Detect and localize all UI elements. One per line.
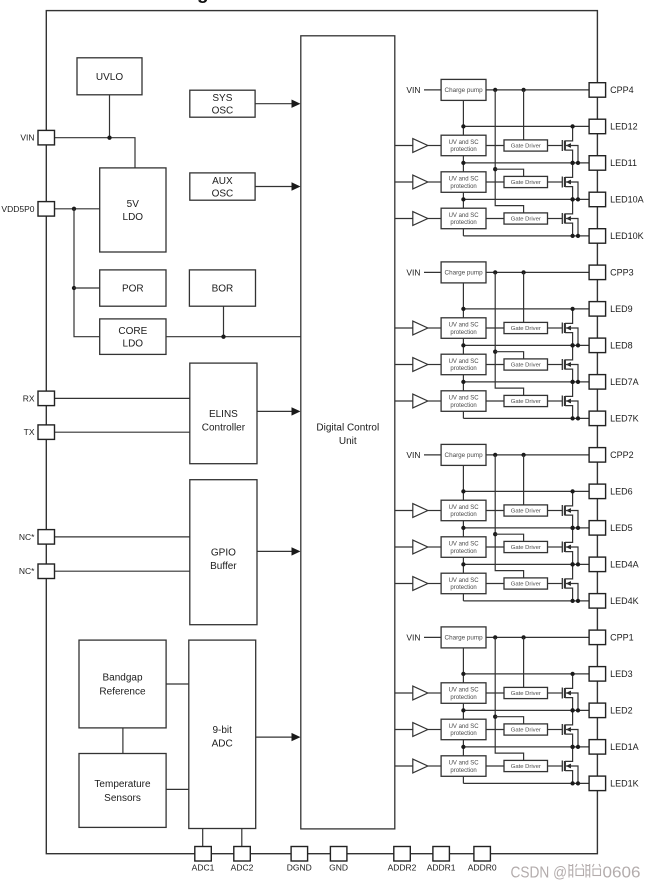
svg-text:g: g xyxy=(197,0,209,4)
block Digital Control Unit xyxy=(301,36,395,829)
gate driver 4.3 xyxy=(504,213,548,224)
junction supply branch (group 4) xyxy=(493,167,497,171)
wire DCU to buffer 3.2 xyxy=(395,364,413,366)
wire LED8 row xyxy=(463,344,589,346)
junction body Q3.2 xyxy=(576,380,580,384)
junction UV chain row LED4A xyxy=(461,562,465,566)
junction body Q4.3 xyxy=(576,234,580,238)
svg-text:Gate Driver: Gate Driver xyxy=(511,180,541,186)
wire UV to gate driver 3.1 xyxy=(486,327,504,329)
svg-text:protection: protection xyxy=(450,549,476,555)
gate driver 1.2 xyxy=(504,724,548,735)
svg-text:LED4K: LED4K xyxy=(610,596,639,606)
block Bandgap Reference xyxy=(79,640,166,728)
svg-text:LED9: LED9 xyxy=(610,304,633,314)
wire rail to POR xyxy=(74,287,100,289)
block UVLO xyxy=(77,58,142,95)
junction source Q2.1 xyxy=(570,526,574,530)
pin LED10A xyxy=(589,192,644,207)
UV and SC protection 1.1 xyxy=(441,683,486,704)
svg-text:protection: protection xyxy=(450,768,476,774)
wire UV chain bottom (group 2) xyxy=(462,594,464,601)
junction body Q4.2 xyxy=(576,197,580,201)
svg-text:UV and SC: UV and SC xyxy=(449,724,480,730)
pin LED3 xyxy=(589,667,633,682)
svg-text:GPIO: GPIO xyxy=(211,547,236,558)
svg-text:9-bit: 9-bit xyxy=(212,725,232,736)
svg-text:UV and SC: UV and SC xyxy=(449,578,480,584)
svg-text:DGND: DGND xyxy=(287,863,312,873)
pin LED4K xyxy=(589,594,639,609)
pin LED9 xyxy=(589,302,633,317)
junction drain Q3.1 xyxy=(570,307,574,311)
wire VIN pin to 5V LDO input xyxy=(55,138,135,168)
junction drain Q3.2 xyxy=(570,343,574,347)
wire DCU to buffer 2.1 xyxy=(395,510,413,512)
wire supply to gate driver 2 (group 3) xyxy=(495,352,523,359)
svg-text:protection: protection xyxy=(450,695,476,701)
junction body Q2.3 xyxy=(576,599,580,603)
junction drain Q3.3 xyxy=(570,380,574,384)
junction drain Q1.3 xyxy=(570,745,574,749)
pin NC2 xyxy=(19,564,55,579)
watermark CJK glyph 1 xyxy=(569,864,601,878)
buffer 2.3 xyxy=(413,577,428,591)
svg-text:RX: RX xyxy=(23,393,35,403)
wire LED4A row xyxy=(463,563,589,565)
wire UVLO to VIN net xyxy=(109,95,111,138)
buffer 4.2 xyxy=(413,175,428,189)
svg-text:CPP4: CPP4 xyxy=(610,85,634,95)
wire LED1A row xyxy=(463,746,589,748)
wire UV to gate driver 4.2 xyxy=(486,181,504,183)
svg-text:protection: protection xyxy=(450,220,476,226)
wire buffer to UV 4.2 xyxy=(428,181,441,183)
MOSFET switch Q3.3 xyxy=(548,382,579,419)
pin LED11 xyxy=(589,156,637,171)
block 5V LDO xyxy=(100,168,166,252)
wire charge pump 2 to CPP2 pin xyxy=(486,454,589,456)
svg-text:UV and SC: UV and SC xyxy=(449,140,480,146)
pin RX xyxy=(23,391,55,406)
svg-text:CPP3: CPP3 xyxy=(610,268,634,278)
svg-text:protection: protection xyxy=(450,184,476,190)
buffer 2.1 xyxy=(413,504,428,518)
svg-text:LDO: LDO xyxy=(123,339,144,350)
wire buffer to UV 2.2 xyxy=(428,546,441,548)
junction source Q1.2 xyxy=(570,745,574,749)
pin LED5 xyxy=(589,521,633,536)
junction charge pump rail B (group 3) xyxy=(521,270,525,274)
svg-text:UV and SC: UV and SC xyxy=(449,761,480,767)
gate driver 2.2 xyxy=(504,541,548,552)
svg-text:5V: 5V xyxy=(127,199,140,210)
buffer 3.3 xyxy=(413,394,428,408)
junction source Q3.2 xyxy=(570,380,574,384)
svg-text:LED1A: LED1A xyxy=(610,742,639,752)
charge pump 3 xyxy=(441,262,486,283)
svg-text:CPP2: CPP2 xyxy=(610,450,634,460)
wire Temperature Sensors to ADC xyxy=(166,788,189,790)
wire charge pump 2 to UV chain xyxy=(462,465,464,500)
svg-text:Charge pump: Charge pump xyxy=(445,635,484,642)
wire LED12 row xyxy=(463,125,589,127)
UV and SC protection 1.3 xyxy=(441,756,486,777)
junction UV chain row LED6 xyxy=(461,489,465,493)
svg-text:LED12: LED12 xyxy=(610,122,638,132)
svg-text:UV and SC: UV and SC xyxy=(449,396,480,402)
svg-text:LED11: LED11 xyxy=(610,158,637,168)
pin CPP1 xyxy=(589,630,634,645)
svg-text:UV and SC: UV and SC xyxy=(449,505,480,511)
svg-text:UV and SC: UV and SC xyxy=(449,213,480,219)
wire LED2 row xyxy=(463,709,589,711)
svg-text:UV and SC: UV and SC xyxy=(449,542,480,548)
pin GND xyxy=(329,847,348,873)
svg-text:BOR: BOR xyxy=(212,284,234,295)
wire DCU to buffer 1.3 xyxy=(395,765,413,767)
svg-text:protection: protection xyxy=(450,585,476,591)
wire BOR to CORE LDO output net xyxy=(223,306,225,337)
svg-text:VIN: VIN xyxy=(406,450,420,460)
wire UV to gate driver 1.1 xyxy=(486,692,504,694)
svg-text:ADDR2: ADDR2 xyxy=(388,863,417,873)
wire DCU to buffer 4.3 xyxy=(395,218,413,220)
pin ADC1 xyxy=(192,847,215,873)
gate driver 4.1 xyxy=(504,140,548,151)
wire ELINS to DCU xyxy=(257,410,299,412)
svg-text:LED4A: LED4A xyxy=(610,560,639,570)
pin VDD5P0 xyxy=(1,202,54,217)
wire buffer to UV 2.1 xyxy=(428,510,441,512)
wire VIN to charge pump 3 xyxy=(424,271,441,273)
svg-text:ADC1: ADC1 xyxy=(192,863,215,873)
gate driver 2.3 xyxy=(504,578,548,589)
pin CPP2 xyxy=(589,448,634,463)
wire DCU to buffer 3.3 xyxy=(395,400,413,402)
junction UV chain row LED11 xyxy=(461,161,465,165)
wire charge pump 1 to UV chain xyxy=(462,648,464,683)
wire NC1 pin to GPIO xyxy=(55,536,190,538)
wire TX pin to ELINS xyxy=(55,431,190,433)
junction source Q1.1 xyxy=(570,708,574,712)
junction source Q4.2 xyxy=(570,197,574,201)
wire buffer to UV 3.1 xyxy=(428,327,441,329)
MOSFET switch Q4.1 xyxy=(548,126,579,162)
wire Bandgap to ADC xyxy=(166,683,189,685)
wire supply to gate driver 2 (group 2) xyxy=(495,534,523,541)
junction drain Q4.1 xyxy=(570,124,574,128)
block BOR xyxy=(189,270,255,306)
wire DCU to buffer 1.1 xyxy=(395,692,413,694)
svg-text:TX: TX xyxy=(24,427,35,437)
junction UV chain row LED2 xyxy=(461,708,465,712)
junction drain Q2.1 xyxy=(570,489,574,493)
arrowhead ADC to DCU xyxy=(292,733,301,741)
junction supply branch (group 3) xyxy=(493,350,497,354)
arrowhead GPIO to DCU xyxy=(292,547,301,555)
arrowhead SYS OSC to DCU xyxy=(292,100,301,108)
junction source Q4.1 xyxy=(570,161,574,165)
wire LED7K row xyxy=(463,417,589,419)
pin LED7K xyxy=(589,411,639,426)
wire buffer to UV 1.1 xyxy=(428,692,441,694)
svg-text:NC*: NC* xyxy=(19,532,35,542)
arrowhead ELINS to DCU xyxy=(292,407,301,415)
junction source Q1.3 xyxy=(570,781,574,785)
svg-text:ADC2: ADC2 xyxy=(231,863,254,873)
junction body Q2.2 xyxy=(576,562,580,566)
UV and SC protection 3.2 xyxy=(441,354,486,375)
junction UV chain row LED3 xyxy=(461,672,465,676)
svg-text:Gate Driver: Gate Driver xyxy=(511,144,541,150)
svg-text:NC*: NC* xyxy=(19,566,35,576)
svg-text:LED3: LED3 xyxy=(610,669,633,679)
MOSFET switch Q3.2 xyxy=(548,345,579,382)
svg-text:0606: 0606 xyxy=(603,865,641,882)
svg-text:Controller: Controller xyxy=(202,423,246,434)
wire UV chain mid1 (group 1) xyxy=(462,703,464,719)
wire buffer to UV 3.2 xyxy=(428,364,441,366)
junction source Q2.2 xyxy=(570,562,574,566)
block Temperature Sensors xyxy=(79,754,166,828)
wire UV chain mid1 (group 4) xyxy=(462,156,464,172)
svg-text:Gate Driver: Gate Driver xyxy=(511,399,541,405)
svg-text:Gate Driver: Gate Driver xyxy=(511,509,541,515)
svg-text:POR: POR xyxy=(122,284,144,295)
svg-text:Buffer: Buffer xyxy=(210,561,237,572)
junction source Q3.1 xyxy=(570,343,574,347)
svg-text:Gate Driver: Gate Driver xyxy=(511,582,541,588)
pin LED6 xyxy=(589,484,633,499)
wire VIN to charge pump 2 xyxy=(424,454,441,456)
wire UV chain mid2 (group 4) xyxy=(462,192,464,208)
junction supply branch (group 2) xyxy=(493,532,497,536)
svg-text:UVLO: UVLO xyxy=(96,72,123,83)
junction drain Q4.3 xyxy=(570,197,574,201)
MOSFET switch Q2.3 xyxy=(548,564,579,601)
pin TX xyxy=(24,425,55,440)
svg-text:Gate Driver: Gate Driver xyxy=(511,363,541,369)
junction drain Q4.2 xyxy=(570,161,574,165)
wire UV to gate driver 2.3 xyxy=(486,583,504,585)
junction VIN/UVLO xyxy=(107,136,111,140)
wire UV to gate driver 1.3 xyxy=(486,765,504,767)
wire buffer to UV 3.3 xyxy=(428,400,441,402)
svg-text:LED7K: LED7K xyxy=(610,414,639,424)
svg-text:CSDN @: CSDN @ xyxy=(511,865,568,882)
wire supply to gate driver 1 (group 2) xyxy=(523,455,525,505)
svg-text:Gate Driver: Gate Driver xyxy=(511,728,541,734)
svg-text:VDD5P0: VDD5P0 xyxy=(1,204,34,214)
wire DCU to buffer 2.3 xyxy=(395,583,413,585)
junction drain Q1.1 xyxy=(570,672,574,676)
MOSFET switch Q1.3 xyxy=(548,747,579,784)
junction body Q1.2 xyxy=(576,745,580,749)
wire UV to gate driver 2.1 xyxy=(486,510,504,512)
wire UV chain mid2 (group 2) xyxy=(462,557,464,573)
wire LED3 row xyxy=(463,673,589,675)
svg-text:ADC: ADC xyxy=(212,739,233,750)
svg-text:ADDR1: ADDR1 xyxy=(427,863,456,873)
UV and SC protection 3.3 xyxy=(441,391,486,412)
junction charge pump rail B (group 4) xyxy=(521,88,525,92)
wire supply rail A down (group 4) xyxy=(495,90,523,213)
wire UV to gate driver 3.2 xyxy=(486,364,504,366)
buffer 4.1 xyxy=(413,139,428,153)
svg-text:Gate Driver: Gate Driver xyxy=(511,764,541,770)
buffer 3.1 xyxy=(413,321,428,335)
wire Bandgap to Temperature Sensors xyxy=(122,728,124,754)
wire ADC to DCU xyxy=(256,736,299,738)
gate driver 3.1 xyxy=(504,322,548,333)
svg-text:ADDR0: ADDR0 xyxy=(468,863,497,873)
wire LED6 row xyxy=(463,490,589,492)
gate driver 1.3 xyxy=(504,760,548,771)
wire VDD5P0 rail down xyxy=(74,209,100,337)
pin DGND xyxy=(287,847,312,873)
junction charge pump rail A (group 4) xyxy=(493,88,497,92)
charge pump 1 xyxy=(441,627,486,648)
junction charge pump rail A (group 1) xyxy=(493,635,497,639)
pin VIN xyxy=(20,130,54,145)
wire UV chain bottom (group 1) xyxy=(462,776,464,783)
wire supply to gate driver 1 (group 4) xyxy=(523,90,525,140)
UV and SC protection 1.2 xyxy=(441,719,486,740)
svg-text:OSC: OSC xyxy=(212,106,234,117)
UV and SC protection 2.2 xyxy=(441,537,486,558)
svg-text:protection: protection xyxy=(450,366,476,372)
svg-text:LED8: LED8 xyxy=(610,341,633,351)
svg-text:UV and SC: UV and SC xyxy=(449,688,480,694)
junction charge pump rail A (group 3) xyxy=(493,270,497,274)
buffer 1.2 xyxy=(413,723,428,737)
svg-text:LED6: LED6 xyxy=(610,487,633,497)
UV and SC protection 4.2 xyxy=(441,172,486,193)
junction UV chain row LED10A xyxy=(461,197,465,201)
svg-text:protection: protection xyxy=(450,330,476,336)
MOSFET switch Q2.2 xyxy=(548,528,579,565)
svg-text:LED2: LED2 xyxy=(610,706,633,716)
junction charge pump rail A (group 2) xyxy=(493,453,497,457)
svg-text:LED1K: LED1K xyxy=(610,779,639,789)
junction source Q2.3 xyxy=(570,599,574,603)
junction body Q3.3 xyxy=(576,416,580,420)
junction supply branch (group 1) xyxy=(493,715,497,719)
svg-text:GND: GND xyxy=(329,863,348,873)
block GPIO Buffer xyxy=(190,480,257,625)
pin LED8 xyxy=(589,338,633,353)
wire supply to gate driver 2 (group 1) xyxy=(495,717,523,724)
wire DCU to buffer 4.2 xyxy=(395,181,413,183)
wire supply to gate driver 1 (group 1) xyxy=(523,637,525,687)
wire ADC to ADC1 pin xyxy=(202,829,204,847)
wire UV chain mid1 (group 3) xyxy=(462,338,464,354)
svg-text:VIN: VIN xyxy=(406,632,420,642)
svg-text:CORE: CORE xyxy=(118,326,147,337)
block ELINS Controller xyxy=(190,363,257,464)
MOSFET switch Q2.1 xyxy=(548,491,579,528)
junction CORE LDO/BOR xyxy=(221,335,225,339)
junction UV chain row LED7A xyxy=(461,380,465,384)
svg-text:AUX: AUX xyxy=(212,176,233,187)
pin LED12 xyxy=(589,119,638,134)
svg-text:VIN: VIN xyxy=(406,85,420,95)
svg-text:protection: protection xyxy=(450,147,476,153)
arrowhead AUX OSC to DCU xyxy=(292,182,301,190)
svg-text:OSC: OSC xyxy=(212,188,234,199)
wire LED5 row xyxy=(463,527,589,529)
wire charge pump 4 to CPP4 pin xyxy=(486,89,589,91)
buffer 1.1 xyxy=(413,686,428,700)
wire RX pin to ELINS xyxy=(55,397,190,399)
svg-text:protection: protection xyxy=(450,512,476,518)
svg-text:Charge pump: Charge pump xyxy=(445,270,484,277)
wire UV to gate driver 2.2 xyxy=(486,546,504,548)
UV and SC protection 4.1 xyxy=(441,135,486,156)
svg-text:Digital Control: Digital Control xyxy=(316,423,379,434)
svg-text:ELINS: ELINS xyxy=(209,409,238,420)
junction UV chain row LED9 xyxy=(461,307,465,311)
gate driver 3.2 xyxy=(504,359,548,370)
pin ADDR1 xyxy=(427,847,456,873)
svg-text:UV and SC: UV and SC xyxy=(449,323,480,329)
MOSFET switch Q1.2 xyxy=(548,710,579,747)
wire supply to gate driver 1 (group 3) xyxy=(523,272,525,322)
svg-text:LED10A: LED10A xyxy=(610,195,644,205)
svg-text:Gate Driver: Gate Driver xyxy=(511,691,541,697)
pin ADC2 xyxy=(231,847,254,873)
junction drain Q1.2 xyxy=(570,708,574,712)
block SYS OSC xyxy=(190,90,255,117)
MOSFET switch Q3.1 xyxy=(548,309,579,346)
svg-text:Unit: Unit xyxy=(339,436,357,447)
svg-text:Reference: Reference xyxy=(99,686,146,697)
gate driver 4.2 xyxy=(504,176,548,187)
wire charge pump 1 to CPP1 pin xyxy=(486,636,589,638)
svg-text:VIN: VIN xyxy=(406,267,420,277)
wire LED10A row xyxy=(463,198,589,200)
buffer 4.3 xyxy=(413,212,428,226)
wire DCU to buffer 2.2 xyxy=(395,546,413,548)
junction charge pump rail B (group 1) xyxy=(521,635,525,639)
charge pump 4 xyxy=(441,79,486,100)
junction charge pump rail B (group 2) xyxy=(521,453,525,457)
junction UV chain row LED5 xyxy=(461,526,465,530)
junction body Q1.3 xyxy=(576,781,580,785)
pin CPP3 xyxy=(589,265,634,280)
UV and SC protection 2.1 xyxy=(441,500,486,521)
buffer 3.2 xyxy=(413,358,428,372)
junction VDD5P0 rail xyxy=(72,207,76,211)
gate driver 2.1 xyxy=(504,505,548,516)
pin ADDR2 xyxy=(388,847,417,873)
svg-text:LED7A: LED7A xyxy=(610,377,639,387)
pin LED4A xyxy=(589,557,639,572)
wire UV to gate driver 4.3 xyxy=(486,218,504,220)
UV and SC protection 3.1 xyxy=(441,318,486,339)
wire buffer to UV 1.3 xyxy=(428,765,441,767)
gate driver 3.3 xyxy=(504,395,548,406)
wire buffer to UV 4.3 xyxy=(428,218,441,220)
pin NC1 xyxy=(19,530,55,545)
wire supply rail A down (group 2) xyxy=(495,455,523,578)
chip boundary rectangle xyxy=(46,11,597,854)
junction body Q4.1 xyxy=(576,161,580,165)
wire GPIO to DCU xyxy=(257,550,299,552)
wire UV chain mid2 (group 3) xyxy=(462,375,464,391)
svg-text:LED10K: LED10K xyxy=(610,231,644,241)
